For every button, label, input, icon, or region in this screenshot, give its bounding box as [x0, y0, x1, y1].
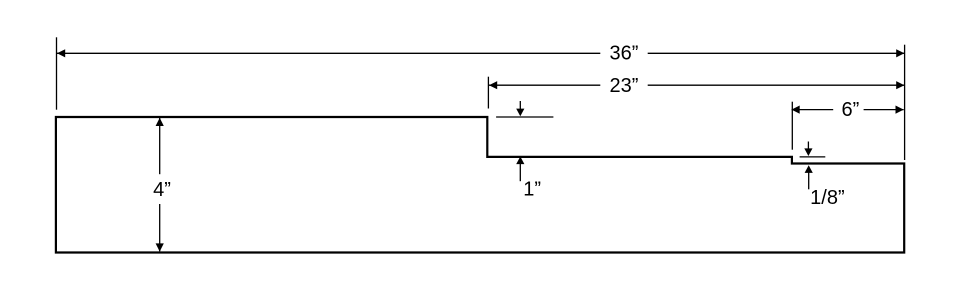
extension line at 23in step — [487, 77, 489, 109]
dimension line 23in — [489, 81, 904, 89]
arrow up 1/8in — [805, 165, 813, 189]
svg-text:1”: 1” — [523, 178, 541, 200]
left extension line — [56, 37, 58, 109]
arrow down 1in — [516, 101, 524, 116]
dimension line 6in — [792, 106, 904, 114]
reference line for 1/8in dimension — [800, 156, 826, 158]
svg-text:36”: 36” — [610, 43, 639, 65]
right extension line — [904, 45, 906, 160]
arrow down 1/8in — [804, 142, 812, 157]
svg-text:6”: 6” — [842, 99, 860, 121]
dimension line 36in — [57, 49, 904, 57]
arrow up 1in — [516, 157, 524, 182]
reference line for 1in dimension — [496, 116, 553, 118]
svg-text:1/8”: 1/8” — [810, 187, 844, 209]
svg-text:23”: 23” — [610, 75, 639, 97]
svg-text:4”: 4” — [153, 179, 171, 201]
dimension line 4in — [156, 118, 164, 252]
part outline (stepped bar) — [56, 117, 904, 253]
extension line at 6in step — [791, 102, 793, 150]
